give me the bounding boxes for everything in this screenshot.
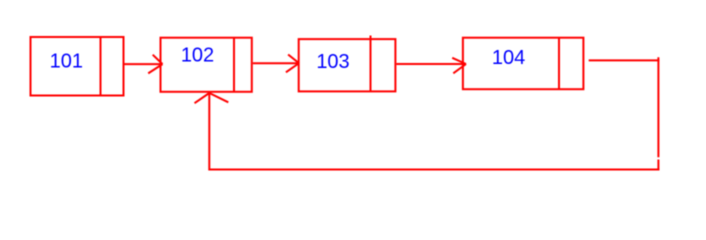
node 102 box	[161, 38, 252, 92]
label 103	[316, 51, 349, 73]
node 103 box	[299, 39, 396, 91]
node 101 box	[31, 37, 124, 96]
node 101 pointer-cell divider	[100, 37, 102, 96]
cycle wire: bottom horizontal segment	[209, 169, 659, 171]
svg-text:101: 101	[50, 51, 83, 73]
svg-text:104: 104	[492, 47, 525, 69]
arrow 101 to 102 upper barb	[153, 55, 163, 64]
arrow 102 to 103 upper barb	[288, 55, 299, 64]
arrow 103 to 104 shaft	[396, 63, 466, 65]
cycle wire: 104 right side horizontal segment	[589, 59, 660, 61]
svg-text:102: 102	[181, 45, 214, 67]
label 101	[50, 51, 83, 73]
node 102 pointer-cell divider	[233, 38, 235, 92]
arrow 101 to 102 lower barb	[148, 64, 162, 73]
node 103 pointer-cell divider	[370, 36, 372, 92]
svg-text:103: 103	[316, 51, 349, 73]
node 104 pointer-cell divider	[558, 38, 560, 89]
arrow 103 to 104 lower barb	[453, 64, 466, 73]
arrow 103 to 104 upper barb	[452, 58, 466, 64]
cycle arrowhead left barb	[195, 93, 210, 103]
arrow 101 to 102 shaft	[124, 63, 162, 65]
cycle wire: right vertical segment lower part	[657, 160, 659, 171]
label 102	[181, 45, 214, 67]
label 104	[492, 47, 525, 69]
arrow 102 to 103 shaft	[253, 62, 299, 64]
cycle wire: right vertical segment upper part	[657, 57, 659, 157]
cycle wire: left vertical segment up to node 102	[208, 93, 210, 171]
node 104 box	[463, 38, 584, 89]
cycle arrowhead right barb	[209, 93, 228, 102]
arrow 102 to 103 lower barb	[286, 63, 299, 72]
